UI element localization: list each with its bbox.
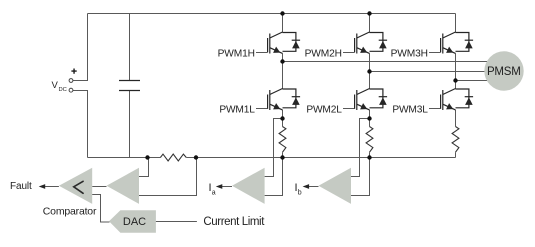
wire Ib amp top input tap (leg B shunt top) xyxy=(351,119,370,177)
diode D3L (antiparallel) xyxy=(456,89,474,108)
motor PMSM xyxy=(484,51,523,90)
diode D1H (antiparallel) xyxy=(283,33,301,52)
svg-text:Current Limit: Current Limit xyxy=(203,216,265,228)
wire gate lead PWM1H xyxy=(256,52,268,54)
wire phase B to PMSM xyxy=(370,71,499,73)
svg-text:V: V xyxy=(52,80,59,91)
node ground rail leg A junction xyxy=(280,155,284,159)
node top rail leg A junction xyxy=(280,11,284,15)
wire gate lead PWM1L xyxy=(256,108,268,110)
wire leg B midpoint vertical xyxy=(369,53,371,88)
wire phase C to PMSM xyxy=(456,80,499,82)
wire gate lead PWM3H xyxy=(429,52,441,54)
wire Ib output arrow xyxy=(308,186,319,188)
wire leg C lower emitter to resistor xyxy=(455,110,457,127)
wire ground rail left segment xyxy=(88,157,161,159)
transistor Q2H xyxy=(355,32,370,54)
wire gate lead PWM2H xyxy=(343,52,355,54)
transistor Q3H xyxy=(441,32,456,54)
node ground rail leg B junction xyxy=(367,155,371,159)
svg-text:a: a xyxy=(212,189,216,196)
node leg A shunt top junction xyxy=(280,116,284,120)
svg-text:Comparator: Comparator xyxy=(43,206,97,218)
wire DC shunt amp top input tap xyxy=(139,158,149,177)
svg-text:b: b xyxy=(298,189,302,196)
transistor Q1L xyxy=(268,89,283,111)
diode D1L (antiparallel) xyxy=(283,89,301,108)
comparator U2 xyxy=(59,168,92,204)
node leg B shunt top junction xyxy=(367,116,371,120)
wire Current Limit to DAC xyxy=(156,221,197,223)
svg-text:Fault: Fault xyxy=(10,181,32,192)
transistor Q3L xyxy=(441,89,456,111)
wire top DC+ rail xyxy=(88,13,456,15)
wire V- terminal to ground rail xyxy=(73,91,88,158)
svg-text:PWM2L: PWM2L xyxy=(306,105,342,116)
wire leg B resistor to ground rail xyxy=(369,152,371,157)
wire Ia output arrow xyxy=(221,186,232,188)
resistor RA (phase-leg shunt) xyxy=(279,127,286,153)
svg-text:DAC: DAC xyxy=(123,216,146,228)
wire Fault output arrow xyxy=(44,186,59,188)
svg-text:PMSM: PMSM xyxy=(487,66,521,78)
transistor Q1H xyxy=(268,32,283,54)
node phase B junction xyxy=(367,69,371,73)
svg-text:PWM1H: PWM1H xyxy=(218,49,255,60)
wire leg A midpoint vertical xyxy=(282,53,284,88)
wire leg B upper collector xyxy=(369,14,371,33)
wire capacitor bottom lead xyxy=(129,91,131,158)
op-amp U5 (Ib phase current amplifier) xyxy=(319,168,352,204)
wire leg C upper collector xyxy=(455,14,457,33)
node phase A junction xyxy=(280,59,284,63)
resistor Rdc (DC-link shunt) xyxy=(160,154,186,161)
DAC U3 xyxy=(109,210,156,233)
wire leg A resistor to ground rail xyxy=(282,152,284,157)
node DC shunt left junction xyxy=(145,155,149,159)
diode D3H (antiparallel) xyxy=(456,33,474,52)
svg-text:DC: DC xyxy=(59,87,67,93)
transistor Q2L xyxy=(355,89,370,111)
wire Ia amp top input tap (leg A shunt top) xyxy=(265,119,283,177)
label + polarity xyxy=(71,69,76,74)
wire gate lead PWM3L xyxy=(429,108,441,110)
wire Ib amp bottom input tap (leg B shunt bottom) xyxy=(351,158,370,196)
node phase C junction xyxy=(453,78,457,82)
wire DC shunt amp bottom input tap xyxy=(139,158,197,196)
wire leg C midpoint vertical xyxy=(455,53,457,88)
diode D2H (antiparallel) xyxy=(370,33,388,52)
capacitor C1 (DC link) xyxy=(119,81,140,91)
wire capacitor top lead xyxy=(129,14,131,81)
wire gate lead PWM2L xyxy=(343,108,355,110)
wire U1 output to comparator xyxy=(92,186,106,188)
wire ground rail right segment xyxy=(186,157,455,159)
node DC shunt right junction xyxy=(194,155,198,159)
wire DAC output to comparator input xyxy=(92,195,109,223)
resistor RB (phase-leg shunt) xyxy=(366,127,373,153)
op-amp U1 (DC shunt amplifier) xyxy=(107,168,140,204)
wire leg A lower emitter to resistor xyxy=(282,110,284,127)
svg-text:PWM3L: PWM3L xyxy=(392,105,428,116)
op-amp U4 (Ia phase current amplifier) xyxy=(232,168,265,204)
wire leg B lower emitter to resistor xyxy=(369,110,371,127)
wire leg A upper collector xyxy=(282,14,284,33)
diode D2L (antiparallel) xyxy=(370,89,388,108)
wire Ia amp bottom input tap (leg A shunt bottom) xyxy=(265,158,283,196)
svg-text:PWM3H: PWM3H xyxy=(391,49,428,60)
node top rail leg B junction xyxy=(367,11,371,15)
svg-text:PWM2H: PWM2H xyxy=(305,49,342,60)
wire leg C resistor to ground rail xyxy=(455,152,457,157)
dc source VDC terminals xyxy=(69,79,73,83)
wire phase A to PMSM xyxy=(283,61,499,63)
resistor RC (phase-leg shunt) xyxy=(452,127,459,153)
wire V+ terminal to top rail xyxy=(73,14,88,81)
svg-text:PWM1L: PWM1L xyxy=(219,105,255,116)
